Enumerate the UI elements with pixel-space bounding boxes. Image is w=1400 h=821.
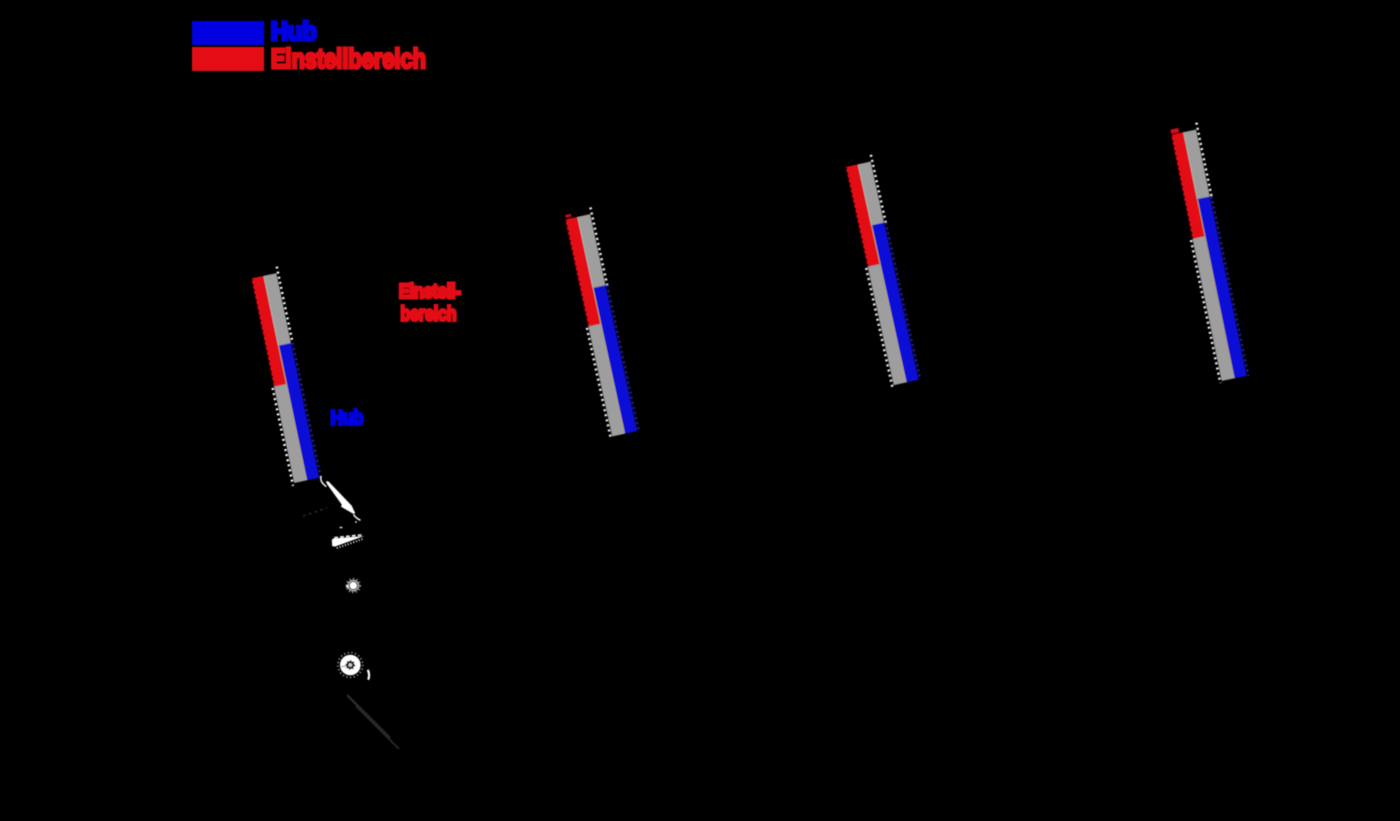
- roller large: dark gear hub: [346, 661, 354, 669]
- bar3 red Einstellbereich segment: [846, 164, 880, 266]
- bar3 left rack teeth: [866, 268, 892, 388]
- rack bar 4: [1168, 123, 1249, 384]
- drive rod top hook: [321, 476, 326, 486]
- pivot small: white disc: [350, 582, 358, 590]
- bar3 right rack teeth white: [871, 155, 886, 222]
- bar1 red edge notches: [252, 279, 274, 386]
- rack bar 3: [843, 155, 921, 388]
- bar2 left rack teeth: [587, 328, 611, 437]
- wedge left end block: [332, 539, 335, 547]
- roller large: gear teeth: [346, 661, 355, 670]
- bar4 centre separator: [1184, 132, 1198, 199]
- drive rod blade: [326, 481, 355, 514]
- faint dashed arc left of rod: [303, 508, 327, 516]
- bar4 blue Hub segment: [1197, 197, 1246, 379]
- roller large: radius line: [341, 666, 347, 667]
- bar4 red Einstellbereich segment: [1171, 132, 1205, 239]
- speck between rod and wedge: [340, 527, 343, 528]
- svg-text:Einstellbereich: Einstellbereich: [271, 43, 426, 74]
- svg-text:Hub: Hub: [271, 16, 317, 46]
- bar1 left grey segment: [274, 384, 307, 483]
- bar4 left grey segment: [1192, 236, 1234, 381]
- bar3 blue Hub segment: [872, 223, 919, 383]
- bar1 right rack teeth white: [277, 267, 293, 343]
- bar1 red Einstellbereich segment: [251, 276, 286, 387]
- legend swatch Einstellbereich (red): [192, 47, 264, 71]
- svg-text:Hub: Hub: [331, 408, 364, 430]
- roller large: hub centre dot: [348, 663, 352, 667]
- pivot small: grey ring: [348, 580, 358, 590]
- roller large: serrated tick ring: [338, 653, 363, 678]
- faint link streak upper: [347, 695, 390, 738]
- bar3 red edge notches: [846, 167, 868, 266]
- bar1 blue Hub segment: [279, 343, 320, 480]
- bar4 left rack teeth: [1191, 240, 1220, 383]
- bar3 left grey segment: [868, 264, 906, 385]
- bar1 right grey segment: [264, 273, 291, 346]
- bar2 red edge notches: [566, 220, 589, 327]
- wedge rack teeth below hypotenuse: [337, 539, 364, 548]
- bar1 right rack teeth blue: [293, 343, 321, 477]
- wedge lower-left dash: [332, 545, 334, 547]
- bar4 right rack teeth blue: [1212, 196, 1249, 376]
- bar4 red edge notches: [1172, 135, 1193, 239]
- bar4 top red tooth speck: [1170, 128, 1179, 134]
- drive rod bottom hook: [354, 515, 361, 521]
- bar3 right rack teeth blue: [886, 222, 920, 379]
- svg-text:Einstell-: Einstell-: [399, 281, 461, 303]
- bar2 right rack teeth white: [590, 207, 607, 285]
- legend swatch Hub (blue): [192, 21, 264, 45]
- faint link streak lower: [356, 706, 399, 749]
- rack bar 1: [248, 267, 321, 486]
- bar3 centre separator: [858, 165, 871, 226]
- bar2 top red tooth speck: [565, 214, 571, 218]
- drive rod blade lower step: [342, 506, 355, 514]
- latch sliver right of roller: [368, 670, 369, 680]
- drive rod bottom speck: [355, 521, 357, 523]
- pivot small: serration ring: [346, 579, 360, 593]
- bar4 right grey segment: [1184, 130, 1210, 200]
- bar2 blue Hub segment: [593, 285, 637, 433]
- bar2 red Einstellbereich segment: [565, 217, 601, 327]
- bar3 right grey segment: [858, 162, 884, 226]
- bar2 left grey segment: [588, 324, 624, 437]
- pivot small: left blob: [346, 585, 349, 588]
- svg-text:bereich: bereich: [401, 304, 457, 326]
- bar1 centre separator: [264, 276, 278, 345]
- bar2 centre separator: [578, 217, 593, 288]
- rack bar 2: [562, 207, 639, 437]
- bar2 right grey segment: [578, 214, 606, 288]
- bar4 right rack teeth white: [1196, 123, 1211, 197]
- wedge top edge dashes: [334, 535, 362, 538]
- toothed wedge body: [333, 536, 365, 547]
- bar2 right rack teeth blue: [607, 285, 638, 429]
- roller large: white disc: [340, 655, 361, 676]
- bar1 left rack teeth: [273, 388, 293, 486]
